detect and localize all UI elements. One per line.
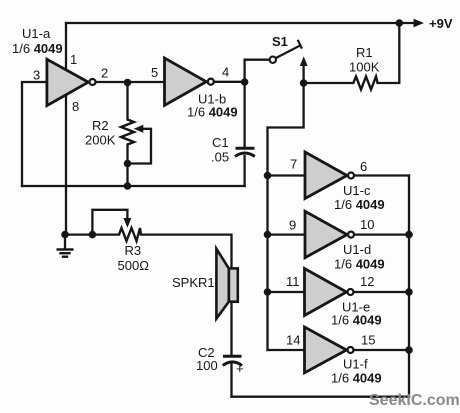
svg-text:U1-c: U1-c (343, 183, 371, 198)
svg-text:3: 3 (33, 68, 40, 83)
resistor R1 (353, 77, 377, 90)
wire C1 bottom lead (243, 156, 245, 186)
wire U1-e input (268, 291, 305, 293)
svg-text:U1-d: U1-d (343, 242, 371, 257)
svg-text:R3: R3 (125, 243, 142, 258)
svg-text:11: 11 (286, 274, 300, 289)
wire speaker top to R3 (141, 235, 232, 269)
svg-text:SeekIC.com: SeekIC.com (369, 392, 460, 409)
wire R2 top lead (126, 83, 128, 120)
wire +9V top rail (66, 22, 417, 24)
svg-text:C1: C1 (212, 135, 229, 150)
svg-text:U1-f: U1-f (343, 357, 368, 372)
switch S1 (270, 40, 308, 66)
svg-text:4: 4 (222, 65, 229, 80)
wire C2 top to speaker (230, 302, 232, 356)
node R2 bottom / wiper (124, 160, 132, 168)
op-amp U1-f inverter triangle (305, 327, 354, 373)
node bus / U1-e input (264, 288, 272, 296)
wire U1-c input (268, 174, 306, 176)
svg-text:S1: S1 (272, 34, 288, 49)
svg-text:1/6 4049: 1/6 4049 (331, 370, 382, 385)
capacitor C1 (235, 148, 255, 156)
node U1-a output / R2 (124, 79, 132, 87)
wire U1-e output to right bus (355, 291, 410, 293)
svg-text:R1: R1 (356, 45, 373, 60)
op-amp U1-e inverter triangle (305, 269, 354, 316)
svg-text:+: + (236, 361, 244, 376)
node right bus / U1-d output (405, 231, 413, 239)
capacitor C2 (223, 356, 242, 365)
node U1-b output / S1 / C1 (241, 78, 249, 86)
op-amp U1-c inverter triangle (305, 152, 354, 199)
wire U1-f input (268, 349, 305, 351)
resistor R3 (horizontal, rheostat) (119, 228, 141, 241)
wire R3 left lead to ground node (65, 233, 119, 235)
node right bus / U1-e output (405, 288, 413, 296)
wire U1-a pin8 down to ground node (65, 96, 67, 235)
resistor R3 wiper arrow (123, 218, 131, 228)
svg-text:9: 9 (289, 218, 296, 233)
svg-text:U1-a: U1-a (22, 26, 51, 41)
svg-text:100K: 100K (349, 60, 380, 75)
wire U1-f output to right bus (355, 349, 410, 351)
svg-text:15: 15 (361, 333, 375, 348)
wire ground stem (64, 235, 66, 250)
wire R1 left lead (304, 82, 354, 84)
wire C1 top lead (243, 82, 245, 148)
svg-text:1/6 4049: 1/6 4049 (187, 105, 238, 120)
speaker SPKR1 (216, 249, 237, 319)
svg-text:R2: R2 (92, 118, 109, 133)
op-amp U1-a inverter triangle (47, 59, 96, 105)
wire U1-a input left (22, 82, 47, 186)
wire U1-d output to right bus (355, 233, 409, 235)
svg-text:6: 6 (360, 159, 367, 174)
wire R2 wiper loop (128, 129, 152, 164)
svg-text:7: 7 (290, 157, 297, 172)
svg-text:2: 2 (101, 66, 108, 81)
wire S1 arm to R1 node (302, 66, 304, 83)
wire bottom rail (232, 396, 410, 398)
svg-text:SPKR1: SPKR1 (172, 275, 215, 290)
power +9V arrowhead (414, 19, 425, 28)
wire R3 wiper loop (92, 210, 127, 235)
svg-text:1/6 4049: 1/6 4049 (334, 256, 385, 271)
wire U1-b output to node (215, 81, 245, 83)
svg-text:.05: .05 (211, 150, 229, 165)
wire U1-a pin1 to rail (65, 23, 67, 69)
svg-text:5: 5 (151, 65, 158, 80)
svg-text:8: 8 (72, 99, 79, 114)
svg-text:+9V: +9V (429, 16, 453, 31)
wire R1 right lead up to rail (378, 23, 400, 83)
node rail/R1 junction (396, 19, 404, 27)
node R3 wiper junction (89, 231, 97, 239)
node ground junction (61, 231, 69, 239)
op-amp U1-d inverter triangle (305, 211, 354, 257)
node bus / U1-d input (264, 231, 272, 239)
wire right output bus (408, 176, 410, 397)
wire U1-c output to right bus (355, 174, 409, 176)
resistor R2 wiper arrow (134, 125, 144, 133)
svg-text:10: 10 (360, 217, 374, 232)
wire feedback bottom rail y=186 (22, 185, 245, 187)
wire R1 node step to inverter input bus (268, 83, 304, 350)
ground (57, 250, 74, 257)
svg-text:1/6 4049: 1/6 4049 (334, 197, 385, 212)
op-amp U1-b inverter triangle (165, 58, 214, 105)
wire R2 bottom lead to y186 rail (126, 145, 128, 187)
svg-text:12: 12 (360, 274, 374, 289)
svg-text:1: 1 (70, 52, 77, 67)
svg-text:100: 100 (196, 358, 218, 373)
svg-text:500Ω: 500Ω (118, 258, 150, 273)
wire C2 bottom lead (230, 364, 232, 397)
svg-text:14: 14 (286, 333, 300, 348)
svg-text:1/6 4049: 1/6 4049 (12, 41, 63, 56)
wire U1-a output to U1-b input (97, 81, 164, 83)
node right bus / U1-f output (405, 346, 413, 354)
node R2 / feedback rail (124, 182, 132, 190)
svg-text:200K: 200K (85, 133, 116, 148)
node S1 arm / R1 / bus feed (300, 79, 308, 87)
node bus / U1-c input (264, 172, 272, 180)
wire U1-d input (268, 233, 306, 235)
svg-text:1/6 4049: 1/6 4049 (331, 313, 382, 328)
resistor R2 (vertical, rheostat) (121, 120, 134, 145)
wire node up to S1 (245, 60, 269, 82)
